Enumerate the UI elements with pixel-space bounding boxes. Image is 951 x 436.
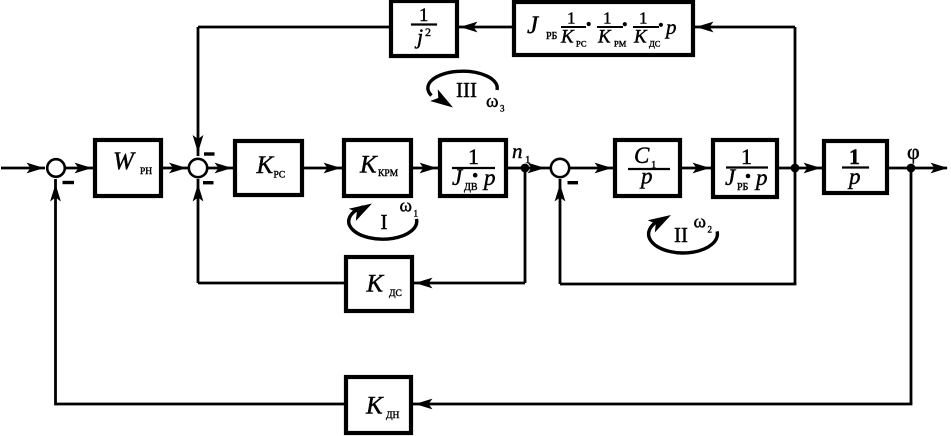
block C1/p [615,140,680,196]
node output dot [907,164,916,173]
block K_ds [346,257,412,311]
svg-text:p: p [664,15,677,39]
svg-text:2: 2 [708,225,713,235]
wire into Kdn [413,399,912,410]
wire node795 up [794,27,797,168]
wire up into S3 bottom [555,179,566,284]
svg-text:K: K [365,393,384,420]
svg-text:ДС: ДС [649,39,661,49]
wire S3 to C1/p [569,163,614,174]
label omega3 [486,91,505,114]
svg-text:W: W [113,148,136,175]
loop III arc [428,71,497,113]
svg-text:ω: ω [486,91,499,112]
svg-text:1: 1 [741,144,752,169]
svg-text:II: II [674,223,688,247]
wire Jrb-comp to 1/j2 [458,22,514,33]
svg-text:K: K [633,27,648,48]
svg-text:K: K [359,152,378,179]
block 1/p [824,141,887,193]
svg-text:n: n [512,139,523,163]
svg-text:1: 1 [414,209,419,219]
svg-text:ω: ω [694,212,707,233]
wire Jrb to 1/p [777,163,823,174]
wire Kdn out left [56,403,347,406]
wire into Jrb-compensation block [694,22,795,33]
svg-text:J: J [725,165,737,190]
block K_rs [235,141,302,195]
label omega1 [400,196,419,219]
svg-text:ДС: ДС [389,289,402,299]
svg-text:K: K [366,271,385,298]
svg-text:1: 1 [567,9,576,28]
block K_dn [346,377,411,433]
wire down into S2 top [193,27,204,156]
block 1/Jrb p [713,140,777,197]
svg-text:РБ: РБ [737,182,749,193]
loop II arc [648,209,718,253]
svg-text:РН: РН [140,167,152,177]
svg-text:ω: ω [400,196,413,217]
block W_rn [95,140,161,196]
svg-text:ДВ: ДВ [464,182,478,193]
wire input to summer 1 [1,163,45,174]
svg-text:K: K [256,152,275,179]
svg-text:РБ: РБ [546,31,558,42]
svg-text:I: I [381,210,388,234]
wire into Kds [413,278,525,289]
wire up into S2 bottom [193,179,204,283]
svg-text:J: J [527,12,540,39]
wire Kds out left [198,282,346,285]
wire Kkrm to Jdv [411,163,439,174]
wire output [887,163,948,174]
wire S2 to Krs [207,163,234,174]
wire W to summer 2 [161,163,188,174]
svg-text:1: 1 [419,5,429,26]
loop I arc [349,197,417,239]
wire Jdv to summer 3 [506,163,550,174]
svg-text:p: p [639,164,653,189]
summer S2 [189,159,207,177]
summer S3 [551,159,569,177]
svg-text:РС: РС [576,39,587,49]
summer S1 [47,159,65,177]
svg-text:p: p [482,165,496,190]
svg-text:РС: РС [274,171,286,181]
svg-text:1: 1 [603,9,612,28]
wire C1/p to Jrb [680,163,712,174]
svg-text:2: 2 [425,25,431,39]
wire n1 node down [524,168,527,283]
svg-text:КРМ: КРМ [378,169,399,179]
minus upper at S2 [204,152,215,155]
svg-text:РМ: РМ [614,39,627,49]
block Jrb/Krs/Krm/Kds p [514,2,693,55]
svg-text:K: K [597,27,612,48]
svg-text:1: 1 [639,9,648,28]
label n1 [512,139,531,166]
block K_krm [344,140,411,196]
svg-text:ДН: ДН [386,411,399,421]
node after Jrb dot [791,164,800,173]
node n1 dot [521,164,530,173]
wire left to under S3 [560,283,796,286]
svg-text:J: J [452,165,464,190]
svg-text:3: 3 [500,104,505,114]
minus at S1 [63,181,75,184]
svg-text:φ: φ [907,139,920,164]
block 1/j2 [391,1,457,56]
wire output node down [910,168,913,404]
wire Krs to Kkrm [302,163,343,174]
svg-text:p: p [847,164,861,189]
wire node795 down [794,168,797,284]
svg-text:K: K [560,27,575,48]
block 1/Jdv p [440,140,506,196]
svg-text:III: III [456,78,477,102]
minus lower at S2 [203,181,214,184]
minus at S3 [568,181,579,184]
wire S1 to W [65,163,93,174]
label omega2 [694,212,713,235]
svg-text:1: 1 [468,144,479,169]
svg-text:p: p [754,165,768,190]
wire 1/j2 left [198,26,391,29]
wire up into S1 bottom [50,179,61,405]
